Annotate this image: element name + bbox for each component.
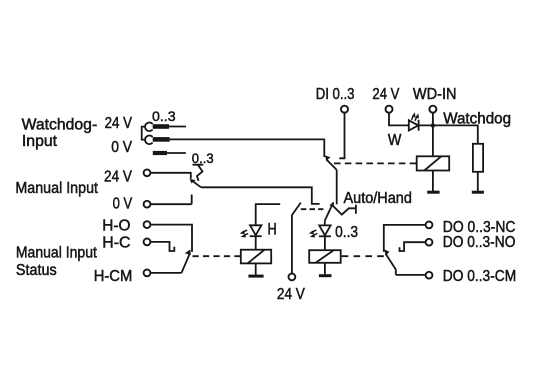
wire 0V long line to DI switch [170,139,325,157]
svg-text:0 V: 0 V [113,196,133,213]
LED W light arrows [412,112,419,121]
label Watchdog-Input [22,116,98,150]
LED W (diode) [409,120,419,130]
ground (resistor) [472,191,484,194]
svg-text:DI 0..3: DI 0..3 [316,86,355,103]
ground (H relay) [248,275,263,278]
switch blade DO [386,254,396,275]
LED W cathode bar [418,120,420,131]
terminal manual input 0V [144,201,151,208]
svg-text:24 V: 24 V [372,86,400,103]
wire DI terminal to switch [339,113,344,159]
svg-text:0 V: 0 V [111,139,132,156]
filter bar lower row [153,151,167,155]
label Manual Input Status [16,245,98,279]
terminal H-O [144,221,151,228]
filter bar 24V row [153,124,169,129]
LED 0..3 [319,225,330,235]
terminal DO CM [426,272,433,279]
wire manual 24V to switch [150,173,190,179]
wire DO NO with contact tick [400,242,426,251]
wire coil 0..3 to ground [324,263,326,275]
svg-text:WD-IN: WD-IN [413,86,457,103]
svg-text:H-CM: H-CM [94,268,133,285]
ground (watchdog relay) [427,191,439,194]
svg-text:0..3: 0..3 [152,109,176,125]
terminal DO NO [426,239,433,246]
wire DO CM [396,274,426,276]
junction node [431,123,435,127]
contact socket bracket (watchdog input) [142,127,146,140]
svg-text:24 V: 24 V [104,169,133,186]
LED H [250,225,261,235]
dashed link H status to H relay [193,255,241,257]
switch blade DI (electronic) [326,159,337,170]
wire resistor to ground [477,172,479,191]
svg-text:H: H [268,221,277,239]
wire LED 0..3 to relay coil [324,236,326,250]
wire manual 0V with contact tick [150,195,191,205]
contact socket 0V row [145,136,153,145]
svg-text:0..3: 0..3 [335,224,358,241]
svg-text:W: W [388,132,402,149]
LED 0..3 light arrows [309,230,318,237]
relay coil H [241,250,271,264]
dashed link 24V switch to Auto/Hand [301,208,324,210]
terminal H-C [144,239,151,246]
svg-text:24 V: 24 V [277,286,306,303]
relay coil 0..3 [309,250,341,263]
actuator T-bar and zigzag (0..3 manual switch) [193,165,204,181]
contact socket 24V row [145,123,153,132]
terminal manual input 24V [144,169,151,176]
svg-text:H-C: H-C [102,235,130,252]
svg-text:H-O: H-O [102,218,130,235]
LED H light arrows [240,230,249,237]
wire WD-IN drop [432,113,434,126]
svg-text:Manual Input: Manual Input [15,180,98,197]
svg-text:DO 0..3-NO: DO 0..3-NO [443,234,516,251]
wire H-C to contact tick [150,242,174,251]
svg-text:DO 0..3-CM: DO 0..3-CM [443,268,516,285]
terminal 24V top [386,106,393,113]
wire 24V row stub [169,126,186,128]
arrowhead H status blade [185,249,191,255]
resistor watchdog [473,144,483,172]
wire Auto/Hand to LED 0..3 [324,221,326,226]
terminal DO NC [426,222,433,229]
svg-text:Status: Status [16,262,57,279]
wire DI switch to Auto contact [336,170,338,204]
switch blade 24V (watchdog contact) [292,203,301,216]
terminal H-CM [144,270,151,277]
svg-text:24 V: 24 V [105,115,133,132]
filter bar 0V row [153,137,170,142]
arrowhead Auto/Hand blade [329,202,334,207]
terminal DI 0..3 [341,106,348,113]
LED H cathode bar [250,235,262,237]
wire 24V top to LED W [389,113,409,126]
wire watchdog coil to ground [432,171,434,192]
LED 0..3 cathode bar [319,235,331,237]
switch blade manual input (electronic, 0..3) [192,180,202,187]
wire LED H to relay coil [255,236,257,250]
arrowhead DO blade [384,249,389,255]
wire junction to watchdog coil [432,125,434,156]
svg-text:Auto/Hand: Auto/Hand [344,190,412,207]
switch blade H status [182,254,190,273]
arrowhead manual input switch [190,179,196,184]
svg-text:Input: Input [22,133,58,150]
ground (relay 0..3) [319,274,332,277]
wire DO NC [384,225,426,252]
wire lower row stub [167,152,186,154]
wire 24V bottom riser [291,215,293,273]
terminal WD-IN [429,106,436,113]
wire H branch top [256,204,281,225]
switch blade Auto/Hand [325,202,334,220]
wire LED W to resistor branch [419,125,478,143]
relay coil watchdog [417,156,450,170]
wire H-CM [150,272,181,274]
dashed link relay 0..3 to DO switch [342,255,384,257]
svg-text:Manual Input: Manual Input [16,245,98,262]
wire hand feed line [201,187,320,204]
wire H-O to contact [150,225,192,252]
arrowhead DI switch [325,155,331,160]
wire coil H to ground [255,263,257,274]
svg-text:Watchdog-: Watchdog- [22,116,98,133]
dashed link DI switch to watchdog relay [334,162,416,164]
terminal 24V bottom [289,274,296,281]
actuator zigzag Auto/Hand [332,205,356,215]
